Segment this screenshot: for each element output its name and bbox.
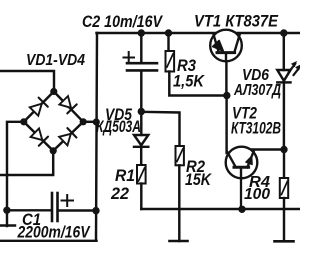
svg-text:22: 22 — [110, 185, 129, 203]
svg-text:АЛ307Д: АЛ307Д — [233, 82, 281, 99]
svg-text:C2 10m/16V: C2 10m/16V — [82, 13, 164, 31]
svg-text:1,5K: 1,5K — [173, 73, 205, 91]
svg-text:VD1-VD4: VD1-VD4 — [26, 52, 85, 69]
svg-text:КТ3102В: КТ3102В — [231, 120, 281, 138]
svg-text:VT1 КТ837Е: VT1 КТ837Е — [194, 13, 279, 31]
svg-text:2200m/16V: 2200m/16V — [17, 224, 92, 242]
svg-text:КД503А: КД503А — [96, 118, 141, 136]
svg-text:15K: 15K — [185, 171, 212, 189]
svg-text:100: 100 — [244, 186, 270, 203]
svg-text:R1: R1 — [115, 167, 135, 185]
